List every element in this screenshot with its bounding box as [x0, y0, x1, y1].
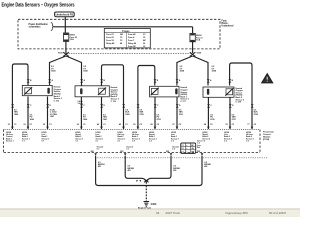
svg-text:Power distribution: Power distribution	[29, 23, 49, 26]
connector s2 pins	[80, 79, 105, 83]
label VT1668 feed 2	[83, 66, 88, 73]
PCM ground internal labels	[97, 141, 203, 151]
PCM pin triangles	[11, 127, 253, 130]
wire bus to fuse ENG2	[192, 27, 194, 34]
status bar	[0, 209, 300, 217]
heater element R b1s2	[151, 88, 158, 94]
PCM label	[263, 131, 275, 142]
sensor element b2s2	[207, 89, 209, 95]
svg-text:Relay 60: Relay 60	[128, 43, 137, 45]
splice bus dotted	[66, 52, 192, 54]
wire fuse ENG2 to splice S109	[192, 42, 194, 53]
label VT1668 feed 3	[180, 66, 185, 73]
wire color labels column 3	[139, 109, 144, 115]
wire b2s1 low	[101, 97, 103, 129]
brace	[51, 23, 54, 31]
ground wire labels	[98, 162, 212, 172]
svg-text:Fuse 23: Fuse 23	[106, 37, 114, 39]
fine dotted connector line	[95, 157, 268, 159]
wire splice S110 to HO2S21 feed	[66, 56, 81, 86]
fuse ENG2	[190, 33, 195, 41]
HO2S bank1 sensor2 box	[150, 86, 179, 97]
svg-text:FigureGroup #P0: FigureGroup #P0	[226, 211, 249, 215]
ground wire inner left	[125, 156, 146, 182]
wire color labels column 1	[14, 109, 19, 115]
sensor element b1s1	[47, 88, 49, 94]
wire b2s1 signal	[80, 97, 82, 129]
wire HO2S11 heater return loop	[12, 64, 28, 129]
sensor element b2s1	[80, 88, 82, 94]
wire b2s2 signal	[207, 97, 209, 129]
svg-text:C 178: C 178	[236, 102, 242, 104]
svg-text:15 A: 15 A	[70, 38, 75, 41]
label HO2S b1s2	[180, 86, 189, 103]
power distribution note	[29, 23, 49, 29]
svg-text:3 6.0L: 3 6.0L	[78, 103, 84, 105]
PCM dashed box	[4, 129, 260, 131]
HO2S bank2 sensor2 box	[203, 87, 234, 97]
svg-text:Underhood FB: Underhood FB	[56, 13, 74, 17]
HO2S bank1 sensor1 box	[22, 85, 52, 95]
svg-text:C3: C3	[181, 152, 183, 154]
svg-text:Fuse 58: Fuse 58	[128, 46, 136, 48]
fuse ENG1	[63, 33, 68, 41]
fuse block name label	[222, 21, 234, 28]
wire splice S109 to HO2S22 feed	[193, 56, 208, 86]
underhood fuse block dashed box	[18, 19, 220, 49]
splice S110	[58, 52, 69, 56]
bus wire	[54, 26, 193, 28]
svg-text:C 176: C 176	[111, 101, 117, 103]
svg-text:Engine Data Sensors – Oxygen S: Engine Data Sensors – Oxygen Sensors	[2, 2, 75, 8]
inline connectors mid	[11, 104, 253, 107]
svg-text:C2: C2	[181, 148, 183, 150]
PCM connector legend table	[181, 143, 196, 154]
connector s4 pins	[207, 79, 234, 83]
svg-text:C 177: C 177	[180, 101, 186, 103]
label HO2S b2s2	[236, 87, 245, 104]
heater element R b2s1	[99, 88, 106, 94]
label HO2S b1s1	[54, 86, 63, 103]
wire splice S110 to HO2S11 feed	[50, 56, 66, 86]
wire color labels column 4	[210, 114, 215, 120]
svg-text:C1: C1	[181, 145, 183, 147]
svg-text:Relay 48: Relay 48	[106, 42, 115, 45]
svg-text:50 of 2,108 P: 50 of 2,108 P	[269, 211, 286, 215]
fuse table box	[104, 29, 150, 48]
svg-text:34: 34	[156, 211, 160, 215]
ground wire outer right	[146, 156, 202, 186]
svg-text:15 A: 15 A	[196, 39, 201, 42]
PCM internal pin labels	[6, 132, 254, 142]
wire HO2S22 heater return loop	[230, 63, 252, 129]
fuse block label box	[55, 12, 75, 17]
ground lead dashed	[145, 182, 147, 202]
warning triangle	[262, 74, 273, 83]
svg-text:Fuse 48: Fuse 48	[128, 33, 136, 36]
svg-text:2007 Truck: 2007 Truck	[166, 211, 181, 215]
ground wire outer left	[96, 156, 147, 186]
wire b1s1 low	[47, 97, 49, 130]
svg-text:Fuse 21: Fuse 21	[106, 34, 114, 36]
svg-text:Fuse 33: Fuse 33	[106, 40, 114, 42]
wire splice S109 to HO2S12 feed	[177, 56, 193, 86]
wire HO2S21 heater return loop	[102, 65, 124, 129]
heater element R b2s2	[226, 89, 233, 95]
svg-text:Underhood: Underhood	[222, 26, 234, 28]
svg-text:schematics: schematics	[29, 26, 42, 29]
svg-text:=: =	[186, 152, 187, 154]
wire b1s2 low	[176, 97, 178, 129]
svg-text:G103: G103	[151, 203, 157, 206]
ground G103	[138, 202, 157, 210]
wire b1s2 signal	[154, 97, 156, 129]
wire from label box to fuse ENG1	[64, 17, 66, 33]
ground wire inner right	[147, 156, 172, 182]
wire color labels column 2	[78, 100, 84, 105]
PCM ground pin stubs	[91, 151, 202, 153]
HO2S bank2 sensor1 box	[75, 86, 109, 97]
svg-text:=: =	[186, 148, 187, 150]
svg-text:=: =	[186, 145, 187, 147]
sensor element b1s2	[175, 88, 177, 94]
splice S108	[136, 179, 148, 182]
connector C1 s1 pins	[27, 79, 54, 83]
wire HO2S12 heater return loop	[138, 66, 155, 130]
PCM pin numbers	[8, 123, 257, 126]
connector s3 pins	[154, 79, 181, 83]
wire b2s2 low	[229, 97, 231, 129]
heater element R b1s1	[25, 88, 32, 94]
svg-text:C 175: C 175	[54, 100, 60, 102]
svg-text:Fuse 4: Fuse 4	[128, 36, 135, 39]
wire fuse ENG1 to splice S110	[65, 41, 67, 53]
label HO2S b2s1	[111, 86, 120, 103]
splice S109	[190, 52, 202, 56]
label VT1668 feed 1	[51, 66, 56, 73]
label VT1668 feed 4	[212, 66, 217, 73]
wire b1s1 signal	[27, 97, 29, 130]
svg-text:Fuse 7: Fuse 7	[128, 40, 135, 42]
svg-text:(PCM): (PCM)	[263, 139, 269, 141]
ground pin triangles	[94, 153, 203, 156]
